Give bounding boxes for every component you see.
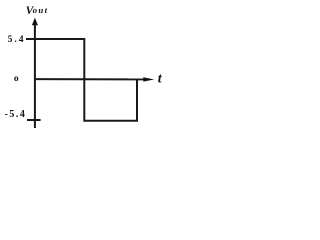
svg-text:-5.4: -5.4: [5, 109, 27, 120]
svg-text:5.4: 5.4: [8, 35, 26, 45]
svg-text:o: o: [14, 74, 19, 84]
svg-text:out: out: [33, 5, 49, 15]
